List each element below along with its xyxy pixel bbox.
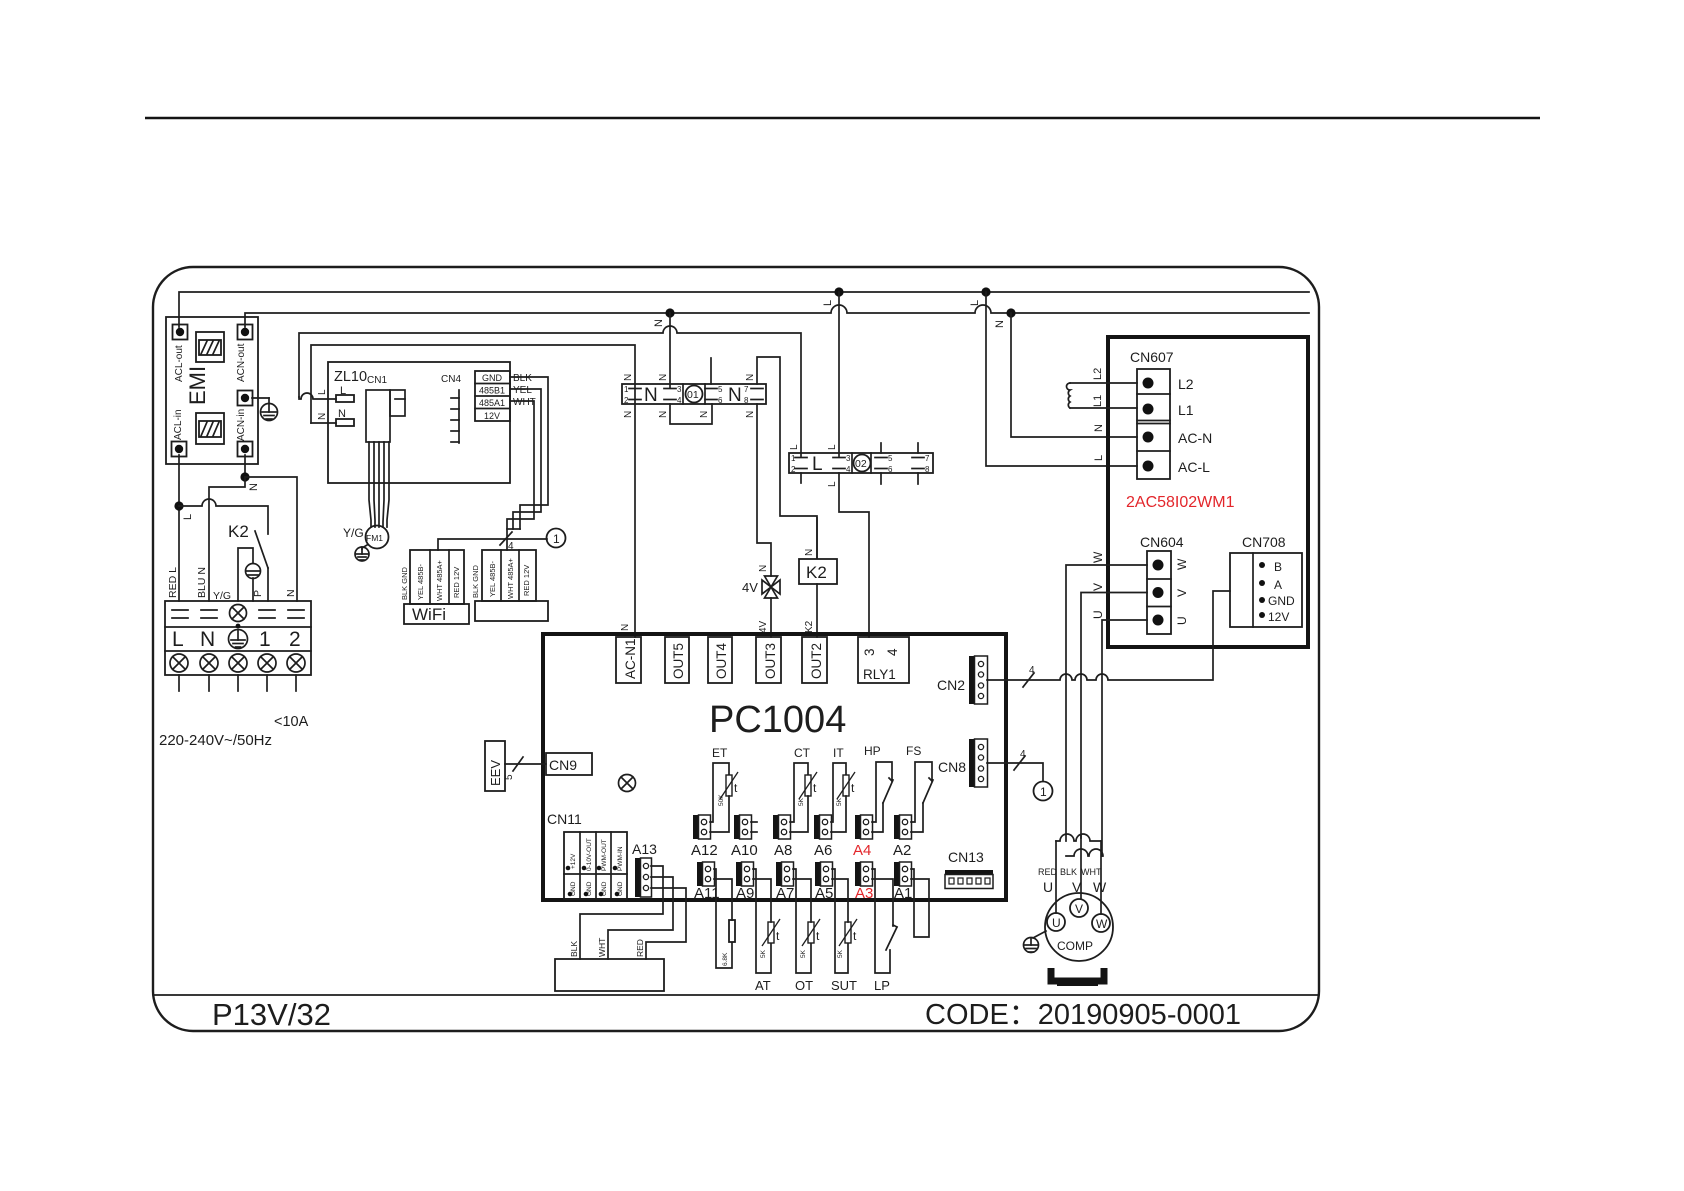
svg-text:FM1: FM1	[366, 533, 383, 543]
node N	[240, 472, 249, 481]
bus wire L (line3 to relay 02)	[299, 326, 801, 456]
svg-text:RED 12V: RED 12V	[522, 565, 531, 596]
pressure lamp P	[238, 548, 253, 601]
svg-text:BLK: BLK	[569, 941, 579, 957]
node L	[174, 501, 183, 510]
node 1 circle	[547, 529, 566, 548]
wire N to terminal N	[209, 477, 245, 601]
top rule	[145, 117, 1540, 120]
ground at FM1	[362, 545, 367, 549]
svg-text:8: 8	[744, 396, 749, 405]
svg-text:W: W	[1093, 879, 1107, 895]
svg-text:N: N	[623, 411, 634, 418]
svg-text:L2: L2	[1092, 368, 1104, 380]
svg-text:N: N	[728, 385, 742, 406]
coil K2	[816, 518, 818, 559]
svg-text:N: N	[653, 319, 665, 327]
svg-text:EEV: EEV	[488, 760, 503, 786]
svg-text:V: V	[1075, 902, 1083, 916]
svg-text:U: U	[1175, 616, 1189, 625]
svg-text:50K: 50K	[718, 794, 725, 806]
svg-text:OUT5: OUT5	[671, 643, 686, 679]
svg-text:FS: FS	[906, 744, 921, 758]
svg-text:AC-N1: AC-N1	[623, 638, 638, 679]
board PC1004	[543, 634, 1006, 900]
svg-text:N: N	[248, 483, 260, 491]
svg-text:N: N	[758, 565, 769, 572]
svg-text:L: L	[822, 300, 834, 306]
connector A10	[734, 815, 752, 839]
connector A7	[776, 862, 794, 886]
svg-text:5K: 5K	[760, 949, 767, 958]
screw terminals	[170, 654, 305, 672]
terminal ACN-out	[238, 325, 253, 340]
svg-text:ACL-out: ACL-out	[174, 345, 185, 382]
svg-text:CN607: CN607	[1130, 349, 1174, 365]
svg-text:N: N	[285, 589, 297, 597]
connector A3	[855, 862, 873, 886]
wire N dot to relay01 pin3	[669, 313, 671, 388]
svg-text:YEL: YEL	[513, 385, 532, 396]
relay 01	[622, 374, 766, 418]
svg-text:A3: A3	[855, 885, 873, 902]
pilot lamp	[230, 605, 247, 622]
sensor SUT	[832, 869, 848, 973]
svg-text:OUT2: OUT2	[809, 643, 824, 679]
connector A4	[855, 815, 873, 839]
svg-text:CN2: CN2	[937, 677, 965, 693]
svg-text:L: L	[827, 481, 838, 487]
svg-text:4: 4	[1029, 665, 1035, 676]
svg-text:BLU N: BLU N	[196, 567, 208, 598]
svg-text:4V: 4V	[742, 580, 758, 595]
svg-text:AC-N: AC-N	[1178, 430, 1212, 446]
svg-text:3: 3	[677, 385, 682, 394]
svg-text:7: 7	[744, 385, 749, 394]
svg-text:ACN-in: ACN-in	[236, 409, 247, 441]
svg-text:2AC58I02WM1: 2AC58I02WM1	[1126, 494, 1235, 511]
wire hump into L pad	[299, 393, 336, 399]
svg-text:Y/G: Y/G	[343, 526, 364, 540]
wire A13-3 RED	[646, 888, 686, 959]
connector OUT2	[802, 637, 827, 683]
node L2 on line1	[981, 287, 990, 296]
wire 4V to OUT3	[770, 598, 772, 637]
sensor AT	[753, 869, 771, 973]
svg-text:A: A	[1274, 578, 1282, 592]
svg-text:PC1004: PC1004	[709, 699, 846, 741]
svg-text:W: W	[1091, 551, 1105, 563]
svg-text:CN13: CN13	[948, 849, 984, 865]
svg-text:CN4: CN4	[441, 374, 461, 385]
connector A12	[693, 815, 711, 839]
svg-text:W: W	[1175, 558, 1189, 570]
choke L1-L2	[1070, 382, 1137, 384]
svg-text:A1: A1	[894, 885, 912, 902]
svg-text:ACN-out: ACN-out	[236, 343, 247, 382]
fan motor FM1	[366, 526, 389, 549]
svg-text:1: 1	[553, 532, 560, 546]
svg-text:N: N	[623, 374, 634, 381]
svg-text:CN1: CN1	[367, 375, 387, 386]
svg-text:12V: 12V	[484, 411, 500, 421]
svg-text:A13: A13	[632, 841, 657, 857]
wire W phase	[1066, 565, 1147, 841]
bus wire L (line1)	[179, 292, 1309, 327]
svg-text:HP: HP	[864, 744, 881, 758]
terminal ACL-out	[173, 325, 188, 340]
wire A13-2 WHT	[608, 877, 673, 959]
svg-text:L: L	[827, 444, 838, 450]
svg-text:N: N	[804, 549, 815, 556]
connector A1	[894, 862, 912, 886]
resistor 6.8K at A11	[714, 869, 732, 968]
valve EEV	[485, 741, 505, 791]
svg-text:5: 5	[888, 454, 893, 463]
svg-text:U: U	[1091, 610, 1105, 619]
wire A13-1 BLK	[580, 866, 663, 959]
svg-text:WHT: WHT	[597, 938, 607, 957]
svg-text:4: 4	[1020, 749, 1026, 760]
svg-text:W: W	[1096, 917, 1108, 931]
svg-text:1: 1	[259, 628, 271, 651]
svg-text:6: 6	[718, 396, 723, 405]
svg-text:N: N	[658, 411, 669, 418]
svg-text:A7: A7	[776, 885, 794, 902]
lamp symbol	[619, 775, 636, 792]
wire K2 coil to OUT2	[816, 584, 818, 637]
svg-text:N: N	[338, 408, 346, 420]
wire L dot to relay02 pin3	[838, 292, 840, 456]
svg-text:3: 3	[846, 454, 851, 463]
svg-text:WiFi: WiFi	[412, 605, 446, 624]
svg-text:YEL 485B-: YEL 485B-	[488, 561, 497, 597]
PE symbol	[229, 630, 248, 649]
svg-text:BLK GND: BLK GND	[400, 566, 409, 600]
wire AC-L feed to CN607	[986, 292, 1137, 466]
svg-text:U: U	[1043, 879, 1053, 895]
compressor COMP	[1045, 893, 1113, 961]
svg-text:GND: GND	[482, 373, 503, 383]
svg-text:0-10V-OUT: 0-10V-OUT	[586, 838, 593, 871]
svg-text:P13V/32: P13V/32	[212, 997, 331, 1032]
svg-text:L: L	[172, 628, 184, 651]
svg-text:5K: 5K	[837, 949, 844, 958]
svg-text:N: N	[1093, 424, 1105, 432]
relay02 stubs	[880, 443, 882, 453]
svg-text:01: 01	[687, 389, 699, 401]
svg-text:EMI: EMI	[185, 366, 210, 405]
svg-text:RED L: RED L	[167, 567, 179, 598]
sensor OT	[793, 869, 811, 973]
wire CN8 to node 1	[987, 763, 1043, 781]
svg-text:PWM-IN: PWM-IN	[617, 846, 624, 871]
relay01 pin5 stub	[710, 358, 712, 384]
svg-text:RED: RED	[1038, 867, 1058, 877]
wire ACN-in to node N	[244, 455, 246, 477]
svg-text:N: N	[699, 411, 710, 418]
svg-text:1: 1	[791, 454, 796, 463]
svg-text:1: 1	[624, 385, 629, 394]
svg-text:4V: 4V	[758, 620, 769, 633]
wire relay02 pin4 to RLY1	[839, 473, 869, 637]
title bar line	[154, 994, 1318, 996]
svg-text:ACL-in: ACL-in	[173, 409, 184, 440]
svg-text:5K: 5K	[836, 797, 843, 806]
EMI choke top	[196, 332, 224, 362]
svg-text:CODE：20190905-0001: CODE：20190905-0001	[925, 999, 1241, 1031]
svg-text:220-240V~/50Hz: 220-240V~/50Hz	[159, 732, 272, 749]
node L on line1	[834, 287, 843, 296]
terminal ACN-in mid	[238, 391, 253, 406]
svg-text:4: 4	[885, 648, 900, 656]
svg-text:5: 5	[718, 385, 723, 394]
RS485 header	[475, 371, 510, 421]
svg-text:SUT: SUT	[831, 978, 857, 993]
svg-text:485A1: 485A1	[479, 398, 505, 408]
EMI filter block	[166, 317, 258, 464]
svg-text:LP: LP	[874, 978, 890, 993]
connector OUT4	[708, 637, 732, 683]
svg-text:N: N	[620, 624, 631, 631]
connector A2	[894, 815, 912, 839]
svg-text:V: V	[1175, 589, 1189, 597]
terminal ACN-in bottom	[238, 442, 253, 457]
pump box	[555, 959, 664, 991]
bundle slash 4	[500, 532, 512, 545]
svg-text:<10A: <10A	[274, 714, 309, 730]
ground at COMP	[1033, 931, 1046, 938]
svg-text:BLK: BLK	[1060, 867, 1077, 877]
svg-text:A4: A4	[853, 842, 871, 859]
connector CN9	[546, 753, 592, 775]
svg-text:L: L	[812, 454, 823, 475]
node N on line2	[665, 308, 674, 317]
second comm connector	[471, 550, 548, 621]
connector A6	[814, 815, 832, 839]
wire relay01 pin8 to 4V valve	[757, 404, 771, 576]
svg-text:5K: 5K	[800, 949, 807, 958]
svg-text:12V: 12V	[1268, 610, 1289, 624]
svg-text:L: L	[317, 389, 328, 395]
svg-text:K2: K2	[804, 620, 815, 633]
svg-text:N: N	[644, 385, 658, 406]
svg-text:N: N	[745, 374, 756, 381]
earth ground at EMI	[252, 397, 269, 399]
svg-text:IT: IT	[833, 746, 844, 760]
svg-text:N: N	[994, 320, 1006, 328]
node N2 on line2	[1006, 308, 1015, 317]
svg-text:YEL 485B-: YEL 485B-	[416, 564, 425, 600]
svg-text:L: L	[969, 300, 981, 306]
svg-text:5K: 5K	[798, 797, 805, 806]
ZL10 control board	[328, 362, 510, 483]
connector A11	[697, 862, 715, 886]
svg-text:L2: L2	[1178, 376, 1194, 392]
svg-text:BLK: BLK	[513, 373, 532, 384]
EMI choke bottom	[196, 413, 224, 444]
outer frame	[153, 267, 1319, 1031]
svg-text:CN8: CN8	[938, 759, 966, 775]
pad N	[336, 419, 354, 426]
svg-text:PWM-OUT: PWM-OUT	[601, 839, 608, 871]
connector AC-N1	[616, 637, 641, 683]
svg-text:A10: A10	[731, 842, 758, 859]
wire into N pad	[311, 422, 336, 424]
svg-text:4: 4	[677, 396, 682, 405]
svg-text:AT: AT	[755, 978, 771, 993]
inverter module box	[1108, 337, 1308, 647]
wire CN2 to CN708	[987, 591, 1230, 680]
svg-text:A5: A5	[815, 885, 833, 902]
svg-text:2: 2	[624, 396, 629, 405]
svg-text:ZL10: ZL10	[334, 369, 367, 385]
svg-text:K2: K2	[806, 563, 827, 582]
wire ACL-in to terminal L	[178, 455, 180, 601]
svg-text:WHT: WHT	[1081, 867, 1102, 877]
svg-text:WHT: WHT	[513, 397, 536, 408]
wire to WiFi	[438, 539, 547, 550]
svg-text:2: 2	[289, 628, 301, 651]
terminal ACL-in	[172, 442, 187, 457]
svg-text:CN708: CN708	[1242, 534, 1286, 550]
svg-text:A9: A9	[736, 885, 754, 902]
pad L	[336, 395, 354, 402]
svg-text:L: L	[789, 444, 800, 450]
WiFi connector	[400, 550, 469, 624]
svg-text:WHT 485A+: WHT 485A+	[435, 559, 444, 601]
svg-text:02: 02	[855, 458, 867, 470]
svg-text:CN11: CN11	[547, 811, 582, 827]
svg-text:1: 1	[1040, 785, 1047, 799]
wire L to K2 contact	[179, 499, 268, 534]
wire EEV to CN9	[505, 763, 546, 765]
svg-text:P: P	[252, 590, 264, 597]
jumper at A1	[911, 869, 929, 937]
svg-text:OUT3: OUT3	[763, 643, 778, 679]
svg-text:L: L	[1093, 455, 1105, 461]
svg-text:CN9: CN9	[549, 757, 577, 773]
svg-text:6: 6	[888, 465, 893, 474]
svg-text:8: 8	[925, 465, 930, 474]
svg-text:L: L	[182, 514, 194, 520]
svg-text:+12V: +12V	[570, 853, 577, 869]
relay RLY1	[858, 637, 909, 683]
svg-text:485B1: 485B1	[479, 386, 505, 396]
svg-text:CN604: CN604	[1140, 534, 1184, 550]
svg-text:COMP: COMP	[1057, 939, 1093, 953]
svg-text:RED 12V: RED 12V	[452, 567, 461, 598]
terminal block L N PE 1 2	[165, 601, 311, 691]
svg-text:6.8K: 6.8K	[722, 952, 729, 966]
bundle join	[507, 528, 520, 530]
svg-text:3: 3	[862, 648, 877, 656]
svg-text:L1: L1	[1092, 395, 1104, 407]
relay01 jumper pins 4-6	[670, 404, 712, 424]
bus wire N (line2)	[245, 305, 1309, 327]
svg-text:A2: A2	[893, 842, 911, 859]
svg-text:ET: ET	[712, 746, 728, 760]
svg-text:BLK GND: BLK GND	[471, 564, 480, 598]
wire U phase	[1102, 620, 1147, 856]
fan motor FM1 wires	[369, 442, 371, 527]
svg-text:2: 2	[791, 465, 796, 474]
svg-text:U: U	[1052, 916, 1061, 930]
svg-text:B: B	[1274, 560, 1282, 574]
svg-text:4: 4	[846, 465, 851, 474]
svg-text:A8: A8	[774, 842, 792, 859]
svg-text:A12: A12	[691, 842, 718, 859]
svg-text:N: N	[658, 374, 669, 381]
connector OUT5	[665, 637, 689, 683]
svg-text:L1: L1	[1178, 402, 1194, 418]
svg-text:CT: CT	[794, 746, 811, 760]
svg-text:RED: RED	[635, 939, 645, 957]
svg-text:OT: OT	[795, 978, 813, 993]
connector A5	[815, 862, 833, 886]
svg-text:5: 5	[504, 774, 515, 780]
svg-text:WHT 485A+: WHT 485A+	[506, 557, 515, 599]
wire AC-N feed to CN607	[1011, 313, 1137, 437]
svg-text:L: L	[340, 385, 346, 397]
wire N to terminal 2	[245, 477, 297, 601]
connector OUT3	[756, 637, 781, 683]
crossover humps	[1056, 834, 1101, 841]
svg-text:K2: K2	[228, 522, 249, 541]
svg-text:N: N	[745, 411, 756, 418]
svg-text:OUT4: OUT4	[714, 643, 729, 679]
svg-text:V: V	[1091, 583, 1105, 591]
switch LP	[872, 869, 890, 973]
svg-text:RLY1: RLY1	[863, 667, 896, 682]
relay 02	[789, 444, 933, 487]
svg-text:GND: GND	[1268, 594, 1295, 608]
wire relay01 pin7 to K2 coil	[757, 357, 817, 559]
bus wire N (line4 to AC-N1)	[311, 345, 635, 637]
svg-text:N: N	[317, 413, 328, 420]
svg-text:N: N	[200, 628, 215, 651]
svg-text:AC-L: AC-L	[1178, 459, 1210, 475]
stub wires below	[178, 675, 180, 691]
mounting bracket	[1051, 968, 1104, 981]
svg-text:A6: A6	[814, 842, 832, 859]
svg-text:7: 7	[925, 454, 930, 463]
connector A8	[773, 815, 791, 839]
node 1 circle	[1034, 782, 1053, 801]
wire V phase	[1081, 593, 1147, 839]
connector A9	[736, 862, 754, 886]
